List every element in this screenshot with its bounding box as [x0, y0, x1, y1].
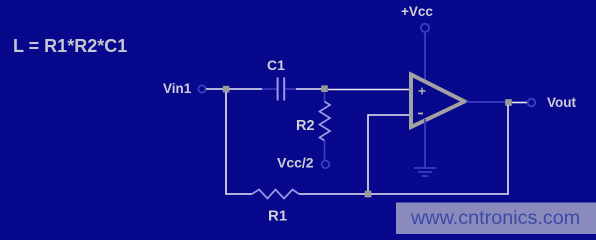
op-amp U1: [411, 75, 465, 128]
svg-text:Vout: Vout: [547, 95, 576, 110]
wire junction D to Vout: [512, 102, 528, 104]
svg-text:R1: R1: [268, 208, 287, 225]
wire C1 to junction B: [296, 88, 322, 90]
capacitor C1: [278, 78, 285, 101]
wire R2 top lead: [324, 92, 326, 102]
terminal +Vcc: [421, 24, 429, 32]
wire R1 to junction C: [299, 193, 365, 195]
wire junction C to junction D: [371, 105, 508, 194]
junction D: [505, 99, 512, 106]
op-amp plus sign: [419, 88, 426, 95]
wire op-amp output lead: [466, 101, 506, 103]
svg-text:+Vcc: +Vcc: [401, 4, 433, 19]
svg-text:Vin1: Vin1: [163, 81, 192, 96]
wire junction B to op-amp noninverting input: [328, 89, 409, 91]
op-amp minus sign: [418, 113, 423, 115]
wire C1 left lead: [262, 88, 277, 90]
watermark box: [396, 203, 596, 235]
wire op-amp inverting input feedback: [368, 115, 409, 192]
svg-text:www.cntronics.com: www.cntronics.com: [410, 207, 580, 229]
junction C: [365, 191, 372, 198]
wire ground lead: [424, 119, 426, 167]
svg-text:R2: R2: [296, 118, 315, 134]
resistor R2: [320, 102, 331, 141]
junction A: [223, 86, 230, 93]
ground: [414, 168, 436, 176]
resistor R1: [252, 190, 299, 199]
terminal Vcc/2: [322, 161, 330, 169]
wire Vin1 to junction A: [206, 88, 224, 90]
terminal Vin1: [198, 85, 205, 92]
wire +Vcc to op-amp power pin: [424, 32, 426, 81]
svg-text:Vcc/2: Vcc/2: [277, 155, 314, 171]
svg-text:L = R1*R2*C1: L = R1*R2*C1: [13, 36, 127, 56]
wire junction A down to R1: [226, 92, 252, 194]
svg-text:C1: C1: [267, 57, 285, 73]
terminal Vout: [528, 99, 536, 107]
wire C1 right lead: [285, 88, 296, 90]
wire R2 bottom lead: [324, 141, 326, 161]
junction B: [321, 85, 328, 92]
wire junction A to C1: [229, 88, 262, 90]
